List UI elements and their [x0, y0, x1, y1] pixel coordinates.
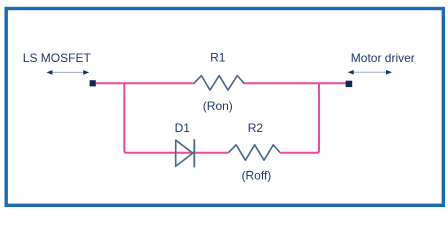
svg-text:(Roff): (Roff): [242, 169, 272, 183]
resistor R1: [194, 76, 245, 91]
svg-text:R1: R1: [210, 51, 226, 65]
node: left terminal square: [90, 80, 96, 86]
wire: left vertical + bottom left (junction to diode/R2): [124, 83, 228, 152]
arrow: LS MOSFET double arrow: [46, 70, 89, 75]
wire: top left segment (left square to R1): [96, 82, 194, 84]
wire: bottom right + right vertical (R2 to junction): [280, 83, 319, 152]
svg-text:(Ron): (Ron): [203, 99, 233, 113]
svg-text:D1: D1: [175, 121, 191, 135]
arrow: Motor driver double arrow: [348, 70, 392, 75]
svg-text:R2: R2: [248, 121, 264, 135]
node: right terminal square: [346, 81, 353, 87]
diode D1: [176, 139, 195, 167]
svg-text:LS MOSFET: LS MOSFET: [23, 51, 92, 65]
resistor R2: [229, 145, 281, 160]
svg-text:Motor driver: Motor driver: [351, 51, 415, 65]
wire: top right segment (R1 to right square): [244, 82, 345, 84]
